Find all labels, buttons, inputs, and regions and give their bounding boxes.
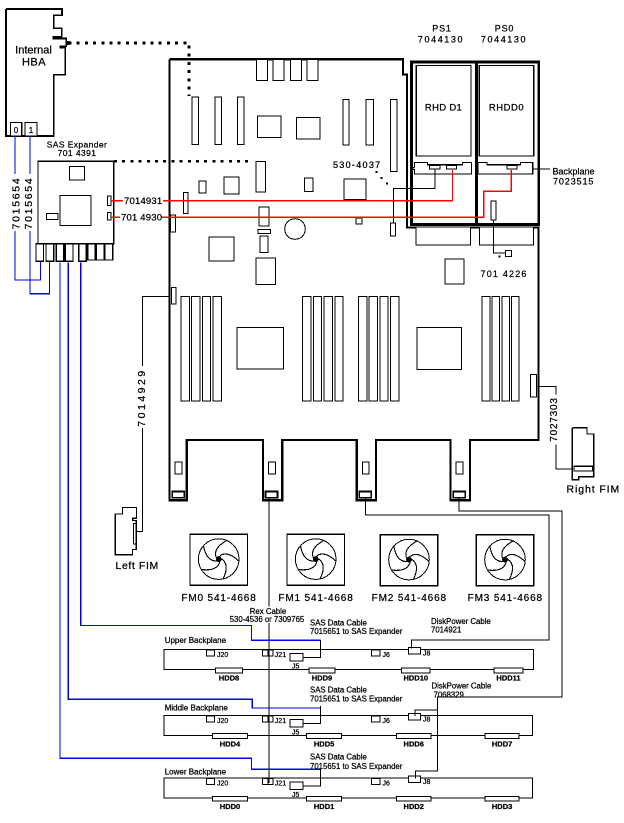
- leg 1 bottom connector: [172, 492, 184, 498]
- slot upper-left 1: [192, 97, 198, 145]
- slot upper-right 1: [343, 99, 349, 144]
- blue SAS cable to middle backplane: [68, 263, 321, 709]
- SAS expander pin 6: [88, 244, 96, 260]
- lower backplane J8 connector: [409, 776, 421, 783]
- svg-text:HDD1: HDD1: [314, 802, 334, 811]
- DIMM slot G1-3: [202, 296, 210, 401]
- svg-text:J21: J21: [275, 652, 286, 659]
- svg-text:PS1: PS1: [432, 24, 451, 34]
- svg-text:Left FIM: Left FIM: [116, 560, 159, 572]
- DiskPower cable leg4 to middle/lower J8: [415, 498, 562, 779]
- svg-text:J5: J5: [292, 729, 300, 736]
- fan FM2: [380, 535, 438, 586]
- label Rex Cable: [227, 607, 307, 624]
- SAS expander right connector 1: [108, 196, 112, 206]
- svg-text:J20: J20: [217, 718, 228, 725]
- SAS expander pin 7: [96, 244, 104, 260]
- upper backplane J5 connector: [290, 654, 303, 662]
- SAS expander pin 8: [105, 244, 113, 260]
- svg-text:J6: J6: [383, 781, 391, 788]
- svg-text:7014931: 7014931: [124, 196, 162, 207]
- component square mid-left: [224, 177, 239, 194]
- svg-text:RHDD0: RHDD0: [489, 103, 524, 114]
- leg 2 small rect: [269, 462, 276, 474]
- svg-text:530-4037: 530-4037: [333, 160, 381, 170]
- lower backplane J5 connector: [290, 782, 303, 790]
- Left FIM connector slot: [133, 524, 135, 544]
- lower backplane HDD3 connector: [485, 796, 519, 801]
- svg-text:Backplane: Backplane: [553, 167, 595, 177]
- svg-text:Right FIM: Right FIM: [567, 483, 621, 495]
- svg-text:HBA: HBA: [22, 57, 46, 69]
- svg-text:SAS Data Cable: SAS Data Cable: [310, 753, 367, 762]
- SAS expander pin 1: [36, 244, 44, 262]
- svg-text:530-4536 or 7309765: 530-4536 or 7309765: [230, 615, 305, 624]
- wire 7014929: [137, 296, 170, 531]
- Internal HBA card outline: [6, 9, 69, 136]
- red cable 7014930: [161, 170, 511, 217]
- PS1 backplane strip: [413, 163, 471, 175]
- leg 3 bottom connector: [359, 492, 371, 498]
- connector on board left edge (7014929): [172, 288, 177, 305]
- upper backplane J8 connector: [409, 648, 421, 655]
- PS0 backplane connector: [507, 166, 517, 169]
- upper backplane J20 connector: [207, 650, 215, 656]
- leg 3 small rect: [362, 462, 369, 474]
- wire 7027303: [537, 386, 575, 469]
- SAS Expander box: [38, 161, 114, 244]
- lower backplane J6 connector: [372, 779, 381, 785]
- middle backplane HDD7 connector: [485, 734, 519, 739]
- DIMM slot G3-3: [380, 296, 388, 401]
- svg-text:DiskPower Cable: DiskPower Cable: [432, 682, 492, 691]
- svg-text:701 4391: 701 4391: [58, 148, 97, 158]
- middle backplane HDD6 connector: [397, 734, 432, 739]
- DIMM slot G2-4: [335, 296, 343, 401]
- lower backplane J21 connector: [263, 779, 268, 785]
- RHDD0 box: [479, 66, 534, 157]
- leg 1 small rect: [175, 462, 182, 474]
- Rex cable (leg2 down to lower J21): [268, 498, 270, 783]
- upper backplane J21 connector: [263, 650, 268, 656]
- SAS expander pin 4: [65, 244, 73, 262]
- middle backplane J20 connector: [207, 716, 215, 722]
- svg-text:FM2 541-4668: FM2 541-4668: [372, 593, 447, 604]
- svg-text:FM3 541-4668: FM3 541-4668: [468, 593, 543, 604]
- upper backplane J5 wire: [303, 640, 321, 658]
- red cable 7014930 stub: [111, 216, 120, 218]
- red cable 7014931: [163, 170, 453, 201]
- slot upper-right 2: [366, 99, 374, 144]
- upper backplane J6 connector: [372, 650, 381, 656]
- SAS expander left rect: [46, 213, 58, 219]
- svg-text:1: 1: [29, 126, 34, 135]
- lower backplane HDD2 connector: [397, 796, 432, 801]
- PS1 backplane connector b: [446, 166, 456, 169]
- middle backplane J6 connector: [372, 716, 381, 722]
- leader dot near 7014226: [499, 256, 501, 258]
- slot small left: [184, 193, 189, 214]
- svg-text:FM1 541-4668: FM1 541-4668: [278, 593, 353, 604]
- svg-text:HDD9: HDD9: [312, 674, 332, 683]
- 7014226 wire: [494, 220, 506, 253]
- upper backplane HDD10 connector: [402, 668, 431, 673]
- svg-text:HDD2: HDD2: [404, 802, 424, 811]
- svg-text:J5: J5: [292, 664, 300, 671]
- HBA port 0 box: [11, 123, 22, 137]
- lower backplane box: [164, 778, 532, 798]
- tray below PS1: [416, 227, 471, 245]
- SAS expander pin 3: [56, 244, 64, 262]
- upper backplane HDD9 connector: [309, 668, 335, 673]
- DIMM slot G4-1: [482, 296, 490, 401]
- connector for PS black cable: [391, 223, 396, 236]
- component 530-4037 square: [344, 179, 366, 200]
- slot upper-left 2: [215, 97, 221, 145]
- connector on board right edge (7027303): [531, 375, 537, 398]
- dotted cable from Internal HBA to board slot: [69, 43, 190, 96]
- DIMM slot G3-2: [369, 296, 377, 401]
- upper backplane box: [164, 650, 533, 670]
- DIMM slot G2-1: [303, 296, 311, 401]
- svg-text:SAS Data Cable: SAS Data Cable: [310, 686, 367, 695]
- dotted cable from SAS Expander to board slot: [114, 160, 250, 163]
- blue SAS cable to lower backplane: [60, 263, 321, 770]
- leg 4 bottom connector: [453, 492, 465, 498]
- SAS expander top square: [69, 166, 84, 180]
- svg-text:Lower Backplane: Lower Backplane: [165, 767, 227, 776]
- svg-text:HDD8: HDD8: [219, 674, 239, 683]
- DIMM slot G3-4: [391, 296, 399, 401]
- svg-text:7015654: 7015654: [23, 177, 35, 230]
- blue cable 7015654 port0: [15, 136, 40, 280]
- battery circle: [285, 219, 306, 240]
- svg-text:HDD11: HDD11: [496, 674, 520, 683]
- svg-text:J21: J21: [275, 781, 286, 788]
- middle backplane J5 connector: [290, 719, 303, 727]
- SAS expander slot (dotted target): [256, 162, 266, 193]
- PS1 backplane connector a: [430, 166, 440, 169]
- DiskPower cable leg3 to upper J8: [366, 498, 549, 649]
- PS bay outer box: [412, 62, 539, 225]
- svg-text:7027303: 7027303: [549, 397, 560, 442]
- middle backplane box: [164, 715, 532, 735]
- tray below PS0: [480, 227, 534, 245]
- svg-text:701 4930: 701 4930: [121, 213, 162, 224]
- blue SAS cable to upper backplane: [81, 263, 321, 641]
- red cable 7014931 stub: [111, 200, 123, 202]
- middle backplane J21 connector: [263, 716, 268, 722]
- DIMM slot G2-3: [324, 296, 332, 401]
- lower backplane J5 wire: [303, 769, 321, 787]
- svg-text:HDD0: HDD0: [220, 802, 240, 811]
- svg-text:J21: J21: [275, 718, 286, 725]
- PS bay divider: [475, 62, 478, 225]
- label 7015654 (rotated, port1): [23, 174, 34, 231]
- svg-text:0: 0: [14, 126, 19, 135]
- svg-text:7015654: 7015654: [11, 177, 23, 230]
- svg-text:HDD7: HDD7: [492, 739, 512, 748]
- svg-text:J8: J8: [423, 651, 431, 658]
- PS0 backplane strip: [478, 163, 533, 175]
- connector tab T3 on board top edge: [291, 59, 302, 80]
- DIMM slot G4-3: [502, 296, 510, 401]
- DiskPower branch to middle J8: [415, 710, 438, 716]
- DIMM slot G4-4: [512, 296, 520, 401]
- svg-text:7044130: 7044130: [418, 35, 464, 45]
- svg-text:Internal: Internal: [15, 45, 52, 57]
- svg-text:HDD6: HDD6: [404, 739, 424, 748]
- DIMM slot G3-1: [359, 296, 367, 401]
- lower backplane HDD1 connector: [307, 796, 342, 801]
- svg-text:701 4226: 701 4226: [481, 269, 528, 279]
- fan FM0: [190, 534, 248, 585]
- component square B: [256, 258, 276, 285]
- svg-text:7044130: 7044130: [481, 35, 527, 45]
- svg-text:J8: J8: [423, 716, 431, 723]
- HBA port 1 box: [25, 123, 37, 137]
- svg-text:HDD5: HDD5: [314, 739, 334, 748]
- small connector on red line: [356, 218, 362, 224]
- svg-text:7023515: 7023515: [553, 176, 594, 186]
- RHDD1 box: [416, 66, 471, 157]
- leg 2 bottom connector: [266, 492, 278, 498]
- svg-text:FM0 541-4668: FM0 541-4668: [181, 593, 256, 604]
- slot upper-left 3: [238, 97, 244, 145]
- fan FM3: [476, 535, 534, 586]
- svg-text:PS0: PS0: [495, 24, 514, 34]
- upper backplane HDD8 connector: [216, 668, 243, 673]
- connector tab T2 on board top edge: [273, 59, 284, 80]
- middle backplane J8 connector: [409, 713, 421, 720]
- svg-text:HDD3: HDD3: [492, 802, 512, 811]
- svg-text:J6: J6: [383, 718, 391, 725]
- svg-text:Upper Backplane: Upper Backplane: [165, 636, 227, 645]
- leader dots near 530-4037: [376, 171, 389, 185]
- component rect mid: [305, 178, 314, 192]
- connector tab T4 on board top edge: [307, 59, 318, 80]
- middle backplane HDD5 connector: [307, 734, 342, 739]
- svg-text:J8: J8: [423, 779, 431, 786]
- component vertical rect stack 1: [259, 207, 269, 226]
- middle backplane HDD4 connector: [213, 734, 248, 739]
- svg-text:7015651 to SAS Expander: 7015651 to SAS Expander: [310, 762, 403, 771]
- Backplane label pointer: [533, 168, 550, 170]
- leg 4 small rect: [456, 462, 463, 474]
- label 7015654 (rotated, port0): [11, 174, 22, 231]
- connector tab T1 on board top edge: [256, 59, 267, 80]
- svg-text:7014921: 7014921: [431, 625, 461, 634]
- label 7014929 (rotated): [136, 366, 148, 428]
- svg-text:J20: J20: [217, 652, 228, 659]
- Left FIM outline: [115, 508, 136, 555]
- component vertical rect stack 2: [260, 236, 268, 253]
- 7014226 connector rect: [491, 201, 496, 220]
- svg-text:7014929: 7014929: [136, 368, 148, 426]
- svg-text:7015651 to SAS Expander: 7015651 to SAS Expander: [310, 695, 403, 704]
- SAS expander pin 2: [46, 244, 54, 262]
- component square C (near 7014226): [445, 259, 464, 284]
- SAS expander big square: [60, 196, 91, 226]
- DIMM slot G1-2: [192, 296, 200, 401]
- blue cable 7015654 port1: [30, 136, 50, 294]
- DIMM slot G2-2: [313, 296, 321, 401]
- DIMM slot G1-4: [213, 296, 221, 401]
- lower backplane HDD0 connector: [213, 796, 248, 801]
- lower backplane J20 connector: [207, 779, 215, 785]
- CPU2 square: [417, 328, 462, 370]
- svg-text:J6: J6: [383, 652, 391, 659]
- svg-text:HDD4: HDD4: [220, 739, 241, 748]
- svg-text:J5: J5: [292, 792, 300, 799]
- svg-text:J20: J20: [217, 781, 228, 788]
- middle backplane J5 wire: [303, 706, 321, 724]
- 7014226 small square: [506, 250, 512, 256]
- component U2 square: [296, 118, 320, 139]
- slot upper-right 3 (tall): [391, 99, 397, 171]
- component thin bar: [258, 230, 271, 234]
- slot J-aux small rect: [199, 181, 206, 193]
- DIMM slot G1-1: [181, 296, 189, 401]
- label 7027303 (rotated): [549, 395, 561, 445]
- black cable PS1 to board: [394, 170, 435, 224]
- upper backplane HDD11 connector: [494, 668, 523, 673]
- component U1 square: [258, 116, 281, 138]
- component square A: [209, 237, 234, 261]
- svg-text:Middle Backplane: Middle Backplane: [165, 704, 229, 713]
- main system board outline: [170, 59, 539, 500]
- connector on board left edge (red cable area): [171, 215, 176, 232]
- CPU1 square: [237, 327, 283, 369]
- DIMM slot G4-2: [492, 296, 500, 401]
- Right FIM outline: [572, 428, 594, 480]
- svg-text:HDD10: HDD10: [403, 674, 428, 683]
- svg-text:7015651 to SAS Expander: 7015651 to SAS Expander: [310, 627, 403, 636]
- svg-text:RHD D1: RHD D1: [425, 103, 462, 114]
- svg-text:7068329: 7068329: [434, 691, 464, 700]
- SAS expander right connector 2: [108, 213, 112, 221]
- fan FM1: [287, 534, 345, 585]
- SAS expander pin 5: [79, 244, 87, 262]
- Right FIM connector bar: [574, 466, 593, 471]
